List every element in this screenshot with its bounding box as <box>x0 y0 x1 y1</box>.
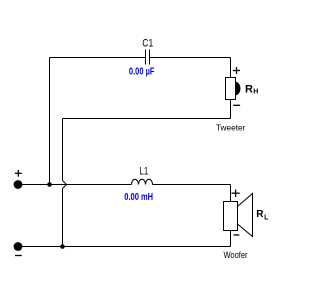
woofer + sign <box>232 190 240 197</box>
inductor L1 <box>132 179 153 184</box>
wire crossover hop at mid row <box>63 181 67 189</box>
wire mid row from L1 to woofer <box>153 184 231 186</box>
wire branch from + node up to C1 row <box>49 58 51 185</box>
wire top row left of C1 <box>50 57 146 59</box>
svg-text:L: L <box>264 214 269 221</box>
tweeter + sign <box>233 67 240 74</box>
wire mid row from + terminal to L1 <box>18 184 132 186</box>
input - sign <box>15 255 22 257</box>
wire tweeter return down to hop <box>62 119 64 181</box>
wire woofer bottom lead <box>230 231 232 247</box>
svg-text:Woofer: Woofer <box>224 250 248 260</box>
wire hop down to bottom row <box>62 189 64 247</box>
svg-text:H: H <box>253 88 258 95</box>
svg-text:L1: L1 <box>140 166 149 178</box>
wire tweeter return row <box>63 118 231 120</box>
tweeter speaker body <box>226 78 236 100</box>
woofer speaker body <box>224 202 238 231</box>
node junction dot at bottom row <box>60 244 65 249</box>
svg-text:R: R <box>245 83 253 95</box>
svg-text:Tweeter: Tweeter <box>216 123 246 133</box>
svg-text:0.00 µF: 0.00 µF <box>129 65 155 77</box>
tweeter - sign <box>233 104 240 106</box>
node junction dot at + branch <box>47 182 52 187</box>
wire tweeter bottom lead <box>230 100 232 119</box>
wire tweeter top lead <box>230 58 232 78</box>
svg-text:0.00 mH: 0.00 mH <box>124 191 153 203</box>
capacitor C1 plates <box>146 50 150 65</box>
input - terminal <box>14 242 23 251</box>
svg-text:C1: C1 <box>142 38 153 50</box>
tweeter dome <box>236 82 241 95</box>
input + terminal <box>14 180 23 189</box>
svg-text:R: R <box>256 209 264 220</box>
woofer - sign <box>234 234 240 236</box>
wire woofer top lead <box>230 185 232 202</box>
woofer cone <box>238 194 253 237</box>
wire top row right of C1 <box>150 57 231 59</box>
wire bottom row <box>18 246 231 248</box>
input + sign <box>15 170 22 177</box>
